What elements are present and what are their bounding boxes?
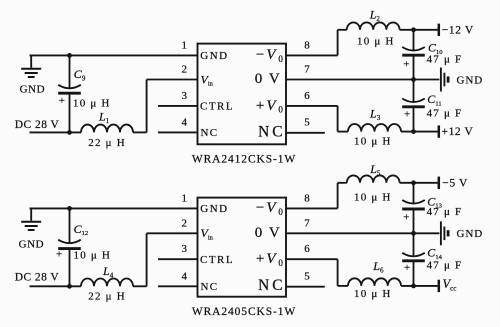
svg-text:2: 2: [182, 64, 188, 76]
svg-text:WRA2405CKS-1W: WRA2405CKS-1W: [192, 306, 296, 318]
svg-text:1: 1: [182, 192, 188, 204]
svg-text:5: 5: [304, 116, 310, 128]
svg-text:CTRL: CTRL: [200, 254, 234, 266]
svg-text:10 μ H: 10 μ H: [354, 135, 392, 147]
svg-text:+: +: [59, 95, 65, 107]
svg-text:4: 4: [182, 270, 188, 282]
svg-text:GND: GND: [20, 83, 46, 95]
svg-text:GND: GND: [200, 203, 228, 215]
svg-text:0 V: 0 V: [255, 71, 282, 87]
svg-text:6: 6: [304, 243, 310, 255]
svg-text:10 μ H: 10 μ H: [74, 249, 112, 261]
svg-text:47 μ F: 47 μ F: [427, 53, 463, 65]
svg-text:7: 7: [304, 64, 310, 76]
svg-text:5: 5: [304, 270, 310, 282]
svg-text:6: 6: [304, 90, 310, 102]
svg-text:+: +: [403, 211, 409, 223]
svg-text:10 μ H: 10 μ H: [73, 98, 111, 110]
svg-text:47 μ F: 47 μ F: [427, 260, 463, 272]
svg-text:−12 V: −12 V: [442, 25, 474, 37]
svg-text:NC: NC: [201, 127, 219, 139]
svg-text:47 μ F: 47 μ F: [427, 206, 463, 218]
svg-text:CTRL: CTRL: [200, 101, 234, 113]
svg-text:WRA2412CKS-1W: WRA2412CKS-1W: [192, 154, 296, 166]
svg-text:+: +: [56, 248, 62, 260]
svg-text:10 μ H: 10 μ H: [354, 288, 392, 300]
svg-text:+: +: [404, 108, 410, 120]
svg-text:3: 3: [182, 243, 188, 255]
svg-text:22 μ H: 22 μ H: [88, 291, 126, 303]
svg-text:8: 8: [304, 192, 310, 204]
svg-text:7: 7: [304, 217, 310, 229]
svg-text:+: +: [403, 58, 409, 70]
svg-text:GND: GND: [19, 238, 45, 250]
svg-text:0 V: 0 V: [255, 225, 282, 241]
svg-text:10 μ H: 10 μ H: [357, 36, 395, 48]
svg-text:NC: NC: [258, 123, 285, 140]
svg-text:NC: NC: [201, 281, 219, 293]
svg-text:−5 V: −5 V: [442, 178, 468, 190]
svg-text:3: 3: [182, 90, 188, 102]
svg-text:8: 8: [304, 39, 310, 51]
svg-text:DC 28 V: DC 28 V: [15, 272, 60, 284]
svg-text:DC 28 V: DC 28 V: [15, 119, 60, 131]
svg-text:+12 V: +12 V: [442, 126, 474, 138]
svg-text:47 μ F: 47 μ F: [427, 108, 463, 120]
svg-text:+: +: [404, 262, 410, 274]
svg-text:NC: NC: [258, 277, 285, 294]
svg-text:4: 4: [182, 116, 188, 128]
svg-text:GND: GND: [457, 74, 484, 86]
svg-text:GND: GND: [200, 50, 228, 62]
svg-text:1: 1: [182, 39, 188, 51]
svg-text:GND: GND: [457, 228, 484, 240]
svg-text:2: 2: [182, 217, 188, 229]
svg-text:10 μ H: 10 μ H: [354, 191, 392, 203]
svg-text:22 μ H: 22 μ H: [88, 137, 126, 149]
